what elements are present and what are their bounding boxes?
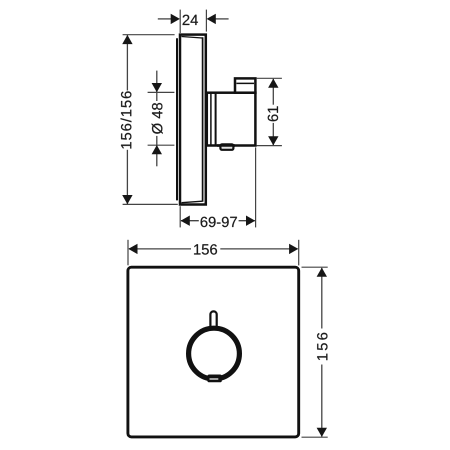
dim 69-97: right extension line [255,147,257,227]
front dim 156 top: left arrow [128,244,137,254]
side view: plate top bevel line [182,37,203,39]
dim 156/156: dimension line lower segment [126,150,128,204]
side view: escutcheon plate outline [180,35,206,205]
side view: plate back rim line [176,38,178,200]
side view: plate front face inner line [202,37,204,202]
side view: body bottom edge over button [217,144,235,147]
front view: handle pointer stub [210,311,216,330]
dim O48: value label (rotated) [152,103,163,134]
front dim 156 right: dimension line lower segment [321,365,323,437]
dim 156/156: bottom arrow [122,195,132,204]
front view: safety stop tab slit [210,378,219,380]
front dim 156 right: bottom arrow [317,428,327,437]
dim 61: dimension line lower segment [272,123,274,145]
dim 156/156: value label (rotated) [121,91,132,148]
front view: square escutcheon plate [128,267,299,437]
dim O48: upper arrow pointing down [152,83,162,92]
dim 156/156: top arrow [122,35,132,44]
front dim 156 top: right extension line [298,240,300,266]
dim 156/156: bottom extension line [123,203,178,205]
dim 24: value label [183,15,198,25]
front dim 156 right: top extension line [302,266,328,268]
dim 69-97: dimension line left segment [181,220,199,222]
side view: body inner ring line 1 [210,93,212,146]
dim 69-97: value label [201,217,237,227]
dim 156/156: top extension line [123,34,175,36]
front dim 156 top: right arrow [289,244,298,254]
front dim 156 right: top arrow [317,268,327,277]
dim 24: left extension line [179,10,181,33]
side view: body inner ring line 2 [215,93,217,146]
dim O48: lower arrow pointing up [152,145,162,154]
front dim 156 top: dimension line left segment [129,248,191,250]
dim 24: right extension line [205,10,207,32]
side view: plate bottom bevel line [182,201,203,203]
dim 61: top arrow [268,79,278,88]
dim 69-97: left arrow [181,216,190,226]
front dim 156 right: bottom extension line [302,436,328,438]
front dim 156 top: left extension line [127,240,129,265]
side view: handle top cap step [235,78,255,92]
dim O48: bottom extension line [148,144,175,146]
front dim 156 top: value label [194,244,217,254]
dim O48: dimension line lower segment [156,136,158,166]
dim 24: right leader and arrow [207,14,229,24]
side view: safety stop button under body [220,144,233,149]
front dim 156 right: value label (rotated) [317,333,327,360]
front dim 156 top: dimension line right segment [220,248,297,250]
side view: cap inner line [236,82,254,84]
dim 61: value label (rotated) [268,106,278,121]
dim O48: top extension line [148,91,175,93]
side view: thermostat cartridge body [207,93,256,146]
dim 69-97: left extension line [179,206,181,227]
dim 69-97: dimension line right segment [239,220,255,222]
dim 61: dimension line upper segment [272,79,274,105]
front dim 156 right: dimension line upper segment [321,268,323,329]
dim 69-97: right arrow [246,216,255,226]
front view: knob circle [189,328,240,379]
dim 156/156: dimension line upper segment [126,35,128,90]
dim O48: dimension line upper segment [156,71,158,101]
dim 61: top extension line [256,77,282,79]
dim 61: bottom arrow [268,136,278,145]
front view: safety stop tab [207,375,222,383]
dim 61: bottom extension line [256,145,282,147]
dim 24: left leader and arrow [158,14,180,24]
